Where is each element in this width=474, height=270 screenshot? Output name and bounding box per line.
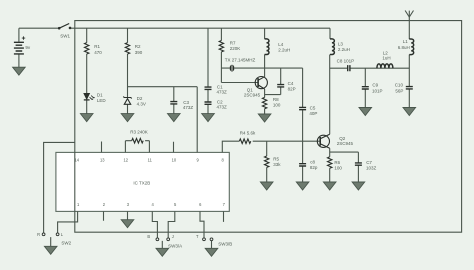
svg-text:R8: R8 [273,97,279,102]
svg-text:R6: R6 [334,160,340,165]
svg-text:2SC945: 2SC945 [337,141,354,146]
svg-text:C8 101P: C8 101P [337,59,355,64]
svg-text:LED: LED [97,98,107,103]
svg-text:SW3/B: SW3/B [218,241,232,246]
svg-text:SW3/A: SW3/A [168,244,182,249]
svg-text:C10: C10 [395,83,404,88]
svg-text:473Z: 473Z [217,105,228,110]
svg-text:C4: C4 [288,81,294,86]
svg-text:2.2uH: 2.2uH [278,48,290,53]
svg-text:R: R [37,232,40,237]
svg-text:14: 14 [75,158,80,163]
svg-text:9v: 9v [25,45,31,50]
svg-text:390: 390 [135,50,143,55]
svg-text:R3 240K: R3 240K [130,130,148,135]
svg-text:11: 11 [148,158,153,163]
svg-text:D1: D1 [97,92,103,97]
svg-text:473Z: 473Z [183,105,194,110]
svg-text:L3: L3 [338,41,344,46]
svg-text:473Z: 473Z [217,89,228,94]
svg-text:C7: C7 [366,160,372,165]
svg-text:82p: 82p [310,165,318,170]
svg-text:100: 100 [273,103,281,108]
svg-text:33k: 33k [273,162,281,167]
svg-text:40P: 40P [309,111,317,116]
svg-text:J: J [172,234,174,239]
svg-text:B: B [147,234,150,239]
svg-text:2.2uH: 2.2uH [338,47,350,52]
svg-text:IC TX2B: IC TX2B [133,180,150,185]
svg-text:10: 10 [172,158,177,163]
svg-text:R4 5.6k: R4 5.6k [240,131,256,136]
svg-text:6.8uH: 6.8uH [398,45,410,50]
svg-text:220K: 220K [230,46,241,51]
svg-text:C5: C5 [310,105,316,110]
svg-text:SW2: SW2 [61,240,71,245]
svg-text:D2: D2 [137,96,143,101]
svg-text:470: 470 [94,50,102,55]
svg-text:4.3V: 4.3V [137,101,146,106]
svg-text:C9: C9 [372,83,378,88]
svg-text:L1: L1 [403,39,409,44]
svg-text:100: 100 [334,165,342,170]
svg-text:103Z: 103Z [366,165,377,170]
svg-text:2SC945: 2SC945 [244,93,261,98]
svg-text:R5: R5 [273,156,279,161]
svg-text:1uH: 1uH [382,55,390,60]
svg-text:101P: 101P [372,88,383,93]
svg-text:R1: R1 [94,44,100,49]
svg-text:82P: 82P [288,87,296,92]
svg-text:Q2: Q2 [339,136,346,141]
svg-text:L4: L4 [278,42,284,47]
svg-text:SW1: SW1 [60,33,70,38]
svg-text:R2: R2 [135,44,141,49]
svg-text:R7: R7 [230,40,236,45]
svg-text:13: 13 [100,158,105,163]
svg-text:56P: 56P [395,88,403,93]
svg-text:TX 27.145MHZ: TX 27.145MHZ [225,57,256,62]
svg-text:c8: c8 [310,159,315,164]
svg-text:12: 12 [124,158,129,163]
